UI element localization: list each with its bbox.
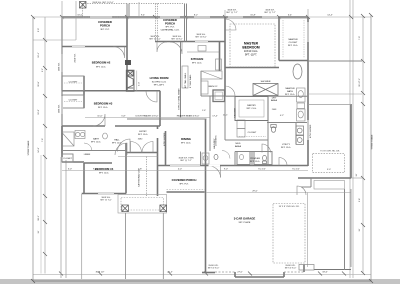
master suite right wall xyxy=(307,17,309,166)
face inner light line xyxy=(62,18,308,20)
svg-text:PANTRY: PANTRY xyxy=(247,104,256,107)
svg-text:STREET NAME: STREET NAME xyxy=(27,140,30,155)
structural beam wall xyxy=(180,42,182,118)
master south wall xyxy=(225,67,279,69)
dim ext line x41 xyxy=(40,155,42,274)
garage front wall segments xyxy=(202,272,215,274)
svg-text:DOOR HEADER @ 8'-0": DOOR HEADER @ 8'-0" xyxy=(136,115,159,118)
svg-text:MUD: MUD xyxy=(236,143,241,145)
house face top wall xyxy=(62,16,308,18)
bed4 bottom wall xyxy=(82,193,126,195)
svg-text:9FT. CLG.: 9FT. CLG. xyxy=(250,161,260,163)
svg-text:30'-8 1/2": 30'-8 1/2" xyxy=(96,272,105,274)
master tray ceiling dashed xyxy=(230,24,275,67)
svg-text:KITCHEN: KITCHEN xyxy=(191,57,203,61)
toilets xyxy=(214,125,276,164)
svg-text:CATHEDRAL CLG.: CATHEDRAL CLG. xyxy=(161,29,180,32)
svg-text:CLOSET: CLOSET xyxy=(69,100,78,102)
svg-text:3068 S.H.: 3068 S.H. xyxy=(59,62,61,71)
svg-text:9FT.-11FT.: 9FT.-11FT. xyxy=(245,52,257,56)
entry left wall xyxy=(157,126,159,129)
svg-text:CLOSET: CLOSET xyxy=(248,132,257,134)
svg-text:9FT. PLT.: 9FT. PLT. xyxy=(179,184,188,186)
left outer dim line xyxy=(32,17,34,281)
hall wall y140 left xyxy=(62,150,126,152)
svg-text:AREA: AREA xyxy=(235,145,241,148)
medium walls xyxy=(62,4,362,271)
svg-text:LIVING ROOM: LIVING ROOM xyxy=(150,76,169,80)
bath row south wall xyxy=(225,95,308,97)
svg-text:BATH: BATH xyxy=(287,90,293,93)
porch2 right wall xyxy=(184,4,186,42)
right outer dim line xyxy=(370,15,372,281)
svg-text:AREA: AREA xyxy=(271,99,277,102)
roof overhang verticals right xyxy=(349,0,351,278)
svg-text:9'-0": 9'-0" xyxy=(327,169,331,171)
entry porch slab xyxy=(118,157,205,214)
svg-text:3068 S.H.: 3068 S.H. xyxy=(59,104,61,113)
svg-text:SET @ 7'-2": SET @ 7'-2" xyxy=(226,12,238,14)
svg-text:BEDROOM #3: BEDROOM #3 xyxy=(94,102,113,106)
svg-text:48" TALL WALL: 48" TALL WALL xyxy=(184,72,187,88)
svg-text:14'-4": 14'-4" xyxy=(327,15,333,17)
master left wall xyxy=(224,17,226,96)
svg-text:9FT. CLG.: 9FT. CLG. xyxy=(181,143,191,145)
svg-text:21'-1": 21'-1" xyxy=(223,115,229,117)
svg-text:27'-0": 27'-0" xyxy=(237,272,243,274)
bath2 fixtures xyxy=(201,71,222,94)
svg-text:7'-6": 7'-6" xyxy=(42,138,44,142)
laundry wall xyxy=(209,96,211,151)
svg-text:CATHEDRAL CLG.: CATHEDRAL CLG. xyxy=(138,168,141,187)
media niche box xyxy=(125,60,131,65)
svg-text:8'-2": 8'-2" xyxy=(194,15,198,17)
svg-text:4'-0": 4'-0" xyxy=(178,169,182,171)
svg-text:9FT. CLG.: 9FT. CLG. xyxy=(96,67,106,69)
ext vert x139 above xyxy=(138,2,140,17)
svg-text:DINING: DINING xyxy=(181,137,191,141)
svg-text:MASTER: MASTER xyxy=(285,87,295,90)
svg-text:9FT. CLG.: 9FT. CLG. xyxy=(99,173,109,175)
svg-text:STREET NAME: STREET NAME xyxy=(371,134,374,149)
fireplace xyxy=(126,70,137,91)
porch front wall xyxy=(167,191,205,193)
svg-text:6'-4": 6'-4" xyxy=(288,15,292,17)
svg-text:SET @ 8'-0": SET @ 8'-0" xyxy=(208,268,220,270)
svg-text:HEADER BEAM @ 8'-0": HEADER BEAM @ 8'-0" xyxy=(177,115,200,118)
svg-text:2068 S.H.: 2068 S.H. xyxy=(75,53,77,63)
svg-text:9'-1 1/2": 9'-1 1/2" xyxy=(292,169,300,171)
cathedral dashed line xyxy=(146,157,148,197)
garage right upper wall xyxy=(350,104,352,178)
garage side door jog xyxy=(310,178,312,187)
right dim ext y178 xyxy=(351,177,363,179)
svg-text:3'-0": 3'-0" xyxy=(68,169,72,171)
svg-text:SET @ 7'-0": SET @ 7'-0" xyxy=(100,200,112,202)
svg-text:HALL: HALL xyxy=(114,139,120,142)
svg-text:COVERED PORCH: COVERED PORCH xyxy=(172,178,197,182)
svg-text:9'-8": 9'-8" xyxy=(359,198,361,202)
svg-text:5'-0": 5'-0" xyxy=(139,82,141,86)
svg-text:5'-8": 5'-8" xyxy=(121,116,125,118)
window marks on walls (double thin lines) xyxy=(62,17,308,194)
closet bottom wall xyxy=(279,60,308,62)
top-left ext line y40 xyxy=(33,39,76,41)
garage dim line xyxy=(207,192,352,194)
svg-text:9' X 8' OVR. HD. DR.: 9' X 8' OVR. HD. DR. xyxy=(320,151,340,153)
garage corner box xyxy=(299,265,314,271)
svg-text:CLOSET: CLOSET xyxy=(289,42,298,44)
svg-text:SET @ 8'-0": SET @ 8'-0" xyxy=(195,37,207,39)
kitchen counters xyxy=(182,46,222,89)
bed4 left wall xyxy=(83,163,85,194)
svg-text:UTILITY: UTILITY xyxy=(282,144,291,146)
svg-text:9'-1 1/2": 9'-1 1/2" xyxy=(258,169,266,171)
svg-text:4'-2": 4'-2" xyxy=(280,115,284,117)
svg-text:1'-6": 1'-6" xyxy=(202,110,206,112)
svg-text:9FT. PLT.: 9FT. PLT. xyxy=(165,27,174,29)
svg-text:9FT. CLG.: 9FT. CLG. xyxy=(281,147,291,149)
porch1 post xyxy=(80,2,87,9)
entry front wall xyxy=(126,152,158,154)
svg-text:11'-2": 11'-2" xyxy=(359,81,361,86)
svg-text:3-CAR GARAGE: 3-CAR GARAGE xyxy=(234,217,256,221)
patio bottom edge wall xyxy=(308,60,362,62)
svg-text:11'-8": 11'-8" xyxy=(38,81,40,86)
bed closets rod dashes xyxy=(64,83,266,137)
powder walls xyxy=(235,151,268,153)
bed2 top wall xyxy=(62,46,127,48)
svg-text:BATH #2: BATH #2 xyxy=(209,85,218,88)
svg-text:POWDER: POWDER xyxy=(250,158,260,160)
bed4 top wall xyxy=(84,162,112,164)
svg-text:29'-0": 29'-0" xyxy=(252,191,258,193)
garage door thresholds xyxy=(215,271,304,273)
svg-text:9'-2": 9'-2" xyxy=(93,169,97,171)
svg-text:SET @ 7'-2": SET @ 7'-2" xyxy=(180,160,192,162)
closet column wall xyxy=(83,76,85,108)
svg-text:SHOWER: SHOWER xyxy=(261,81,271,83)
bath2 walls xyxy=(200,71,202,96)
powder compartments xyxy=(237,152,250,165)
svg-text:9'-2": 9'-2" xyxy=(42,68,44,72)
bed2 right wall xyxy=(126,17,128,91)
dim labels xyxy=(27,15,374,274)
svg-text:17'-4": 17'-4" xyxy=(212,116,218,118)
svg-text:PORCH: PORCH xyxy=(165,22,175,26)
garage door dashed rects xyxy=(273,154,344,263)
dining left wall xyxy=(165,131,167,166)
svg-text:LINEN: LINEN xyxy=(84,154,91,156)
door arcs xyxy=(93,19,306,195)
svg-text:9FT. CLG.: 9FT. CLG. xyxy=(98,107,108,109)
svg-text:BEDROOM #2: BEDROOM #2 xyxy=(92,61,111,65)
porch1 dotted outline xyxy=(83,4,185,197)
left exterior wall xyxy=(61,17,63,157)
svg-text:CLOSET: CLOSET xyxy=(69,82,78,84)
linen closet xyxy=(213,90,225,102)
svg-text:7'-2": 7'-2" xyxy=(359,78,361,82)
light interior lines xyxy=(33,1,363,267)
svg-text:4780 SLIDER: 4780 SLIDER xyxy=(164,132,166,146)
walkway light verticals bottom left xyxy=(60,157,62,278)
left inner dim line xyxy=(44,17,46,274)
south wall dining to utility xyxy=(158,165,309,167)
svg-text:BEDROOM #4: BEDROOM #4 xyxy=(95,167,114,171)
svg-text:18' X 8' OVR. HD. DR.: 18' X 8' OVR. HD. DR. xyxy=(279,206,300,208)
long dim line y117 xyxy=(85,117,210,119)
svg-text:18'-2": 18'-2" xyxy=(38,215,40,221)
svg-text:15'-8": 15'-8" xyxy=(250,15,256,17)
svg-text:MASTER: MASTER xyxy=(288,38,298,41)
kitchen right wall xyxy=(219,42,221,72)
svg-text:9FT. CLG.: 9FT. CLG. xyxy=(112,143,122,145)
svg-text:2'-8": 2'-8" xyxy=(138,169,142,171)
svg-text:9FT.-14FT.: 9FT.-14FT. xyxy=(154,85,165,87)
patio lower light line xyxy=(308,93,362,95)
svg-text:21'-4": 21'-4" xyxy=(167,272,173,274)
garage side recess xyxy=(314,181,345,190)
mud bench boxes xyxy=(202,120,245,178)
kitchen north wall xyxy=(155,41,225,43)
svg-text:9'-4": 9'-4" xyxy=(141,15,145,17)
svg-text:LOCKERS: LOCKERS xyxy=(216,135,218,146)
svg-text:STRUCTURAL BEAM: STRUCTURAL BEAM xyxy=(178,88,181,110)
shower xyxy=(253,84,278,96)
svg-text:PORCH: PORCH xyxy=(100,24,110,28)
top dim line xyxy=(33,16,371,18)
bath vanity fixtures xyxy=(297,88,306,121)
mud top wall xyxy=(225,139,268,141)
master closet divider xyxy=(278,17,280,61)
svg-text:SET @ 8'-0": SET @ 8'-0" xyxy=(285,268,297,270)
svg-text:BATH: BATH xyxy=(93,138,99,141)
svg-text:BEDROOM: BEDROOM xyxy=(242,46,259,50)
svg-text:18'-6": 18'-6" xyxy=(322,272,328,274)
svg-text:11'-6": 11'-6" xyxy=(97,116,102,118)
svg-text:9FT. CLG.: 9FT. CLG. xyxy=(138,134,148,136)
svg-text:9FT. PLATE: 9FT. PLATE xyxy=(239,221,251,224)
svg-text:CLOSET: CLOSET xyxy=(63,158,72,160)
garage right lower wall xyxy=(344,189,346,270)
porch posts xyxy=(122,205,167,212)
right inner dim line xyxy=(362,16,364,274)
svg-text:5'-0": 5'-0" xyxy=(38,28,40,32)
svg-text:10'-0": 10'-0" xyxy=(77,15,83,17)
patio south wall right xyxy=(308,104,351,106)
W/D boxes xyxy=(296,126,304,145)
svg-text:8' TALL WALL: 8' TALL WALL xyxy=(189,74,192,88)
street band bottom xyxy=(0,279,400,284)
pantry xyxy=(235,97,268,121)
bed4 right wall xyxy=(125,143,127,194)
svg-text:12'-0": 12'-0" xyxy=(38,109,40,115)
bed3 right wall xyxy=(159,91,161,126)
svg-text:14'-6": 14'-6" xyxy=(38,147,40,153)
dining right / garage left wall xyxy=(205,119,207,273)
closets left column xyxy=(62,76,84,162)
master closet rods dashed xyxy=(283,20,304,58)
dining header beam xyxy=(127,118,207,120)
dim row above garage xyxy=(62,170,308,172)
svg-text:9FT. CLG.: 9FT. CLG. xyxy=(247,108,257,110)
bed2/bed3 divider wall xyxy=(62,90,160,92)
svg-text:SET @ 7'-2": SET @ 7'-2" xyxy=(264,12,276,14)
svg-text:HALLWAY: HALLWAY xyxy=(234,107,237,118)
svg-text:7'-0": 7'-0" xyxy=(359,36,361,40)
bottom inner dim line xyxy=(33,274,371,276)
svg-text:9'-0": 9'-0" xyxy=(224,169,228,171)
hall bath fixtures xyxy=(62,131,108,152)
bottom outer dim line xyxy=(33,280,371,282)
svg-text:SET @ 8'-0": SET @ 8'-0" xyxy=(171,39,183,41)
closet bottom wall xyxy=(62,161,84,163)
svg-text:9FT. CLG.: 9FT. CLG. xyxy=(91,142,101,144)
svg-text:SLOPED CLG.: SLOPED CLG. xyxy=(152,82,167,84)
svg-text:9FT. CLG.: 9FT. CLG. xyxy=(285,94,295,96)
hall bath left wall xyxy=(61,126,63,157)
ext line x62 above xyxy=(61,1,63,17)
svg-text:9FT. CLG.: 9FT. CLG. xyxy=(288,45,298,47)
svg-text:9FT. PLT.: 9FT. PLT. xyxy=(100,29,109,31)
garage right step wall xyxy=(298,177,351,179)
bed3 bottom wall xyxy=(62,125,105,127)
svg-text:2068 S.H. SET @ 8'-0": 2068 S.H. SET @ 8'-0" xyxy=(92,2,113,4)
svg-text:12'-4": 12'-4" xyxy=(38,52,40,58)
rotated texts xyxy=(59,62,313,187)
utility divider xyxy=(267,97,269,166)
svg-text:ENTRY: ENTRY xyxy=(139,131,147,133)
master bath tub xyxy=(293,64,302,79)
svg-text:9FT. CLG.: 9FT. CLG. xyxy=(192,63,202,65)
porch1 right wall top xyxy=(126,4,128,18)
svg-text:SET @ 8'-0": SET @ 8'-0" xyxy=(149,39,161,41)
svg-text:4750 SLIDER: 4750 SLIDER xyxy=(310,124,312,138)
